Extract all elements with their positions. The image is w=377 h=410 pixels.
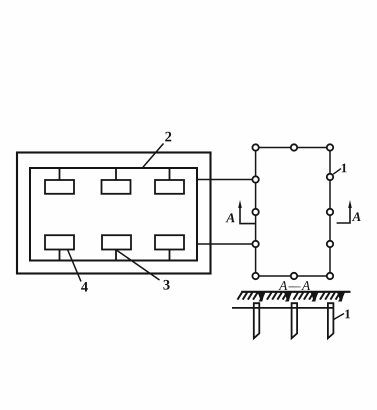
electrode circle top-right — [327, 144, 333, 150]
outer rectangle (enclosure) — [17, 153, 211, 274]
equipment block top-left — [45, 180, 74, 194]
electrode circle right-lower — [327, 241, 333, 247]
soil wedge mark 3 — [311, 292, 319, 301]
electrode circle right-upper — [327, 174, 333, 180]
soil wedge mark 2 — [284, 292, 292, 301]
electrode circle right-middle — [327, 209, 333, 215]
vertical earth pile 1 — [254, 303, 259, 338]
electrode circle top-middle — [291, 144, 297, 150]
connecting wire lower (to ground ring) — [197, 243, 252, 245]
equipment block bottom-middle — [102, 235, 131, 249]
equipment block top-right — [155, 180, 184, 194]
stub wire top-middle block — [115, 168, 117, 180]
leader line label 1 (ring) — [333, 169, 341, 175]
stub wire top-right block — [169, 168, 171, 180]
connecting wire upper (to ground ring) — [197, 179, 252, 181]
electrode circle bottom-middle — [291, 273, 297, 279]
svg-text:A: A — [351, 209, 361, 224]
svg-text:1: 1 — [341, 160, 348, 175]
electrode circle bottom-left — [252, 273, 258, 279]
pile cap connecting line — [232, 307, 333, 309]
svg-text:2: 2 — [165, 129, 172, 145]
equipment block bottom-right — [155, 235, 184, 249]
stub wire top-left block — [59, 168, 61, 180]
ground ring rectangle — [256, 148, 330, 277]
arrowhead of left section arrow — [238, 200, 242, 208]
svg-text:3: 3 — [163, 277, 170, 293]
hatching strokes of ground surface — [238, 292, 341, 299]
section cut line A right — [337, 207, 350, 224]
svg-text:4: 4 — [81, 279, 88, 295]
soil wedge mark 4 — [337, 292, 345, 301]
equipment block top-middle — [102, 180, 131, 194]
leader line label 4 — [68, 250, 82, 282]
svg-text:1: 1 — [344, 306, 351, 321]
stub wire bottom-left block — [59, 250, 61, 261]
vertical earth pile 2 — [292, 303, 298, 338]
stub wire bottom-right block — [169, 250, 171, 261]
section cut line A left — [240, 207, 255, 224]
electrode circle left-middle — [252, 209, 258, 215]
electrode circle left-upper — [252, 176, 258, 182]
inner rectangle (grid bus) — [30, 168, 197, 261]
leader line label 3 — [117, 251, 160, 281]
soil wedge mark 1 — [258, 292, 266, 301]
equipment block bottom-left — [45, 235, 74, 249]
svg-text:A—A: A—A — [278, 278, 312, 293]
leader line label 2 — [143, 144, 164, 168]
vertical earth pile 3 — [328, 303, 334, 338]
ground surface line of section A-A — [241, 291, 350, 293]
stub wire bottom-middle block — [115, 250, 117, 261]
svg-text:A: A — [225, 210, 235, 225]
electrode circle bottom-right — [327, 273, 333, 279]
arrowhead of right section arrow — [348, 200, 352, 208]
leader line label 1 (pile) — [334, 314, 344, 320]
electrode circle left-lower — [252, 241, 258, 247]
electrode circle top-left — [252, 144, 258, 150]
